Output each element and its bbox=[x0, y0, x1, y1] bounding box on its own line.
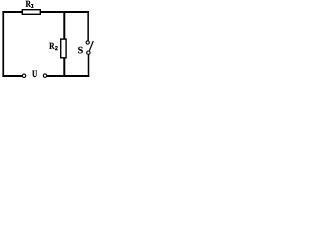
label U bbox=[32, 71, 37, 78]
terminal: right circle of source gap bbox=[43, 74, 46, 77]
wire: left vertical bbox=[2, 11, 4, 77]
switch S bottom contact bbox=[87, 51, 90, 54]
wire: right vertical from top corner to switch bbox=[87, 11, 89, 41]
terminal: left circle of source gap bbox=[22, 74, 25, 77]
resistor R1 bbox=[22, 10, 40, 15]
switch S blade bbox=[89, 41, 93, 51]
switch S top contact bbox=[86, 41, 89, 44]
label R1: subscript 1 bbox=[31, 4, 34, 8]
label R2: subscript 2 bbox=[55, 46, 58, 50]
resistor R2 bbox=[61, 39, 66, 58]
wire: branch down to R2 bbox=[63, 12, 65, 39]
wire: below R2 to bottom wire bbox=[63, 58, 65, 77]
wire: below switch to bottom wire bbox=[88, 55, 90, 77]
wire: bottom right horizontal bbox=[47, 75, 89, 77]
label R1: letter R bbox=[26, 1, 31, 7]
wire: top horizontal bbox=[2, 11, 89, 13]
label R2: letter R bbox=[49, 43, 54, 49]
wire: bottom left horizontal bbox=[2, 75, 22, 77]
label S bbox=[78, 47, 83, 54]
